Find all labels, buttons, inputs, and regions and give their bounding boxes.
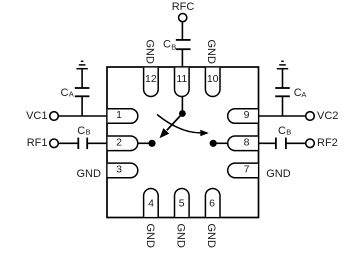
svg-text:9: 9 (244, 109, 250, 121)
svg-text:8: 8 (244, 136, 250, 148)
svg-text:RF2: RF2 (317, 137, 338, 149)
svg-text:1: 1 (116, 109, 122, 121)
svg-text:7: 7 (244, 163, 250, 175)
svg-text:GND: GND (205, 223, 217, 248)
svg-text:B: B (286, 128, 291, 137)
svg-text:C: C (77, 125, 85, 137)
svg-text:C: C (278, 125, 286, 137)
svg-text:GND: GND (205, 39, 217, 64)
svg-text:6: 6 (209, 197, 215, 209)
svg-text:5: 5 (179, 197, 185, 209)
svg-text:GND: GND (143, 39, 155, 64)
svg-text:GND: GND (266, 168, 291, 180)
svg-text:10: 10 (207, 73, 219, 85)
svg-text:11: 11 (176, 73, 187, 85)
svg-text:2: 2 (116, 136, 122, 148)
svg-text:GND: GND (144, 223, 156, 248)
svg-text:RF1: RF1 (27, 137, 48, 149)
svg-text:3: 3 (116, 163, 122, 175)
svg-text:RFC: RFC (172, 1, 195, 13)
svg-text:C: C (163, 38, 171, 50)
svg-text:VC1: VC1 (26, 110, 47, 122)
svg-text:GND: GND (175, 223, 187, 248)
svg-text:A: A (69, 90, 74, 99)
svg-text:4: 4 (148, 197, 154, 209)
svg-text:C: C (61, 87, 69, 99)
svg-text:B: B (86, 128, 91, 137)
svg-text:A: A (301, 90, 306, 99)
svg-text:12: 12 (145, 73, 157, 85)
svg-text:VC2: VC2 (317, 110, 338, 122)
svg-text:B: B (171, 43, 176, 52)
svg-text:GND: GND (77, 168, 102, 180)
